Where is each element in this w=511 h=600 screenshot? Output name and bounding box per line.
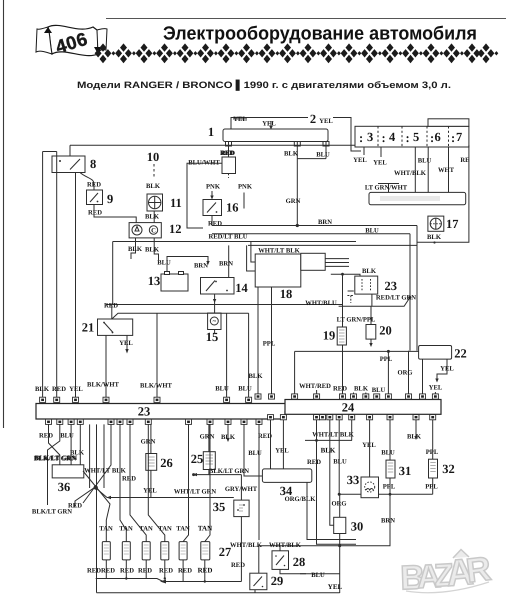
connector squares above bus 23 — [40, 397, 252, 402]
rail PPL H9 — [295, 350, 419, 397]
svg-text:2: 2 — [310, 112, 316, 126]
resistor 31 — [386, 460, 411, 478]
wire BLK stub below bus23 — [221, 424, 236, 442]
svg-text:BRN: BRN — [219, 261, 233, 268]
TAN labels — [99, 525, 212, 533]
svg-text:PNK: PNK — [238, 184, 253, 191]
wire BLK from box 1 — [284, 142, 299, 159]
ballast resistor 3 — [142, 542, 150, 560]
svg-text:23: 23 — [138, 405, 151, 419]
module 34 — [262, 469, 311, 498]
wire PPL to bus24 — [380, 351, 393, 397]
connector squares below bus 24 — [268, 415, 436, 420]
svg-text:ORG: ORG — [331, 501, 346, 508]
ignition coil 23 — [355, 276, 397, 294]
svg-text:YEL: YEL — [69, 386, 83, 393]
svg-text:PPL: PPL — [425, 484, 438, 491]
wire RED feed 21 — [111, 305, 113, 320]
wire 19 to bus24 — [342, 345, 344, 397]
rail H5 — [113, 241, 356, 243]
svg-text:BLU: BLU — [333, 459, 347, 466]
relay 22 — [419, 346, 467, 361]
svg-text:RED: RED — [39, 433, 53, 440]
svg-text:31: 31 — [399, 464, 412, 478]
svg-text:TAN: TAN — [198, 525, 212, 533]
svg-text:BLU: BLU — [248, 450, 262, 457]
svg-text:TAN: TAN — [99, 526, 113, 533]
wire BLK from 18 — [249, 287, 264, 397]
label PPL under 32 — [425, 478, 438, 494]
wire GRY/WHT vertical — [240, 475, 242, 501]
wire GRN to lamp 25 — [200, 424, 215, 451]
wire ORG to lamp 30 — [331, 494, 346, 517]
module 36 — [52, 465, 84, 494]
svg-text:BLK: BLK — [145, 246, 160, 253]
wire RED under 16 — [208, 216, 222, 228]
rail PPL bottom — [338, 493, 433, 496]
svg-text:11: 11 — [170, 196, 182, 210]
bus bar 24 — [285, 400, 441, 415]
svg-text:WHT/LT BLK: WHT/LT BLK — [312, 432, 354, 439]
svg-text:BLU: BLU — [372, 387, 386, 394]
wire RED switch9 to motor 12 — [88, 205, 136, 223]
wire 22 left leg to bus24 — [422, 359, 424, 397]
svg-text:9: 9 — [107, 192, 113, 206]
svg-text:BLU: BLU — [157, 260, 171, 267]
wire BLU from strip pin5 — [415, 147, 431, 192]
svg-text:BLK: BLK — [284, 150, 299, 157]
svg-text:20: 20 — [379, 324, 392, 338]
svg-text:4: 4 — [389, 130, 396, 144]
svg-text:RED: RED — [138, 568, 152, 575]
svg-text::: : — [359, 131, 363, 145]
wire BRN feed 14 — [219, 245, 233, 277]
svg-text:YEL: YEL — [319, 118, 333, 125]
wire BLU to resistor 31 — [381, 420, 395, 460]
label BLK/LT GRN bold — [34, 454, 78, 462]
main top rail — [70, 144, 469, 146]
svg-text:BLK: BLK — [146, 183, 161, 190]
connector strip 3-7 — [355, 119, 469, 147]
header rule line — [106, 18, 506, 20]
svg-text:28: 28 — [293, 555, 306, 569]
svg-text:BLK/WHT: BLK/WHT — [140, 383, 172, 390]
wire stub left pair — [43, 151, 57, 153]
wire RED relay8 to switch 9 — [80, 173, 101, 191]
svg-text:RED: RED — [120, 568, 134, 575]
svg-text:LT GRN/PPL: LT GRN/PPL — [337, 316, 376, 323]
svg-text:26: 26 — [160, 456, 173, 470]
wire PNK bracket to switch 16 — [187, 163, 222, 228]
sensor 15 — [206, 313, 221, 344]
wire BLU right vertical V1 — [409, 234, 411, 351]
wire PPL from 18 — [263, 287, 276, 397]
label YEL node2 — [233, 112, 333, 128]
switch 29 — [250, 573, 283, 590]
svg-text:WHT/BLK: WHT/BLK — [394, 170, 427, 177]
wire YEL from 26 — [143, 470, 157, 497]
wire BLU BLU pair to bus23 — [215, 313, 252, 397]
svg-text:RED: RED — [122, 476, 136, 483]
svg-text:RED: RED — [68, 503, 82, 510]
svg-text:21: 21 — [82, 321, 95, 335]
page ribbon 406 — [36, 25, 107, 57]
lamp 25 — [191, 452, 216, 470]
wire 14 to 15 — [213, 294, 216, 313]
lamp 30 — [334, 517, 364, 533]
svg-text:36: 36 — [58, 480, 71, 494]
svg-text:14: 14 — [235, 281, 248, 295]
wire BRN bracket from 13 — [167, 257, 210, 272]
svg-text:BLK/LT GRN: BLK/LT GRN — [35, 454, 78, 462]
svg-text:29: 29 — [271, 574, 284, 588]
wire RED WHT/LT BLK down — [307, 440, 356, 544]
svg-text:BLK: BLK — [145, 214, 160, 221]
wire stubs to module 18 — [247, 242, 256, 272]
svg-text:PPL: PPL — [263, 341, 276, 348]
svg-text:RED/LT GRN: RED/LT GRN — [376, 295, 416, 302]
wire GRN to lamp 26 — [141, 424, 156, 453]
wire feed module 34 left — [244, 424, 262, 476]
svg-text:BRN: BRN — [318, 219, 332, 226]
wire WHT/LT BLK bracket — [305, 420, 352, 442]
svg-text:PPL: PPL — [380, 356, 393, 363]
switch 9 — [87, 190, 114, 206]
svg-text::: : — [430, 131, 434, 145]
svg-text:30: 30 — [351, 520, 364, 534]
svg-text:WHT/BLK: WHT/BLK — [269, 542, 302, 549]
svg-text:10: 10 — [147, 150, 160, 164]
labels above bus 24 — [299, 383, 385, 394]
rail YEL H10 — [107, 497, 234, 499]
svg-text:BLK: BLK — [427, 234, 442, 241]
wire to box36 right leg — [79, 424, 81, 464]
wire YEL feed to box 1 — [231, 118, 361, 152]
wire BLK stub arrow — [407, 420, 422, 441]
svg-text:8: 8 — [90, 157, 96, 171]
svg-text:18: 18 — [280, 287, 293, 301]
svg-text:BLU: BLU — [311, 572, 325, 579]
page left edge line — [3, 0, 5, 428]
svg-text:Электрооборудование автомобиля: Электрооборудование автомобиля — [163, 24, 477, 45]
wire YEL from strip pin3 — [353, 147, 367, 164]
svg-text:6: 6 — [435, 130, 441, 144]
ballast resistor 6 — [201, 542, 210, 560]
svg-text:YEL: YEL — [119, 340, 133, 347]
svg-text:BLK/LT GRN: BLK/LT GRN — [209, 468, 249, 475]
svg-text:22: 22 — [454, 347, 467, 361]
rail RED/LT BLU H4 — [208, 227, 410, 240]
svg-text:3: 3 — [367, 130, 373, 144]
svg-text:TAN: TAN — [176, 526, 190, 533]
svg-text:RED: RED — [87, 182, 101, 189]
svg-text:WHT/RED: WHT/RED — [299, 383, 331, 390]
svg-text:BLU: BLU — [60, 433, 74, 440]
svg-text:5: 5 — [413, 130, 419, 144]
wire BLK/LT GRN from 25 — [192, 468, 249, 476]
svg-text:BLK: BLK — [354, 385, 369, 392]
svg-text:C: C — [151, 228, 156, 235]
svg-text:BRN: BRN — [194, 263, 208, 270]
svg-text:RED: RED — [88, 210, 102, 217]
wire BLU to rail — [333, 420, 347, 495]
svg-text::: : — [382, 131, 386, 145]
svg-text:RED: RED — [52, 386, 66, 393]
wire RED below bus23 — [39, 424, 60, 464]
svg-text:TAN: TAN — [139, 526, 153, 533]
labels above bus 23 left — [35, 386, 83, 393]
svg-text:GRN: GRN — [200, 433, 215, 440]
wire BLK coil feed — [331, 268, 377, 276]
wire BLU pin6 to gauge bar — [427, 147, 429, 192]
svg-text:RED: RED — [208, 221, 222, 228]
ground cap symbol — [347, 291, 354, 303]
svg-text:YEL: YEL — [353, 157, 367, 164]
svg-text:12: 12 — [169, 222, 182, 236]
module 18 — [255, 253, 349, 301]
wire YEL from relay 8 — [75, 173, 77, 398]
svg-text:RED: RED — [104, 303, 118, 310]
WATERMARK — [400, 550, 493, 598]
svg-text:BRN: BRN — [381, 518, 395, 525]
wire PPL to resistor 32 — [426, 420, 439, 459]
wire feed box 8 — [69, 145, 71, 156]
wire BLK/WHT second — [140, 313, 172, 397]
wire YEL from strip pin4 — [373, 147, 387, 167]
wire ORG to bus24 — [397, 351, 412, 397]
svg-text:16: 16 — [226, 201, 239, 215]
svg-text:BLU: BLU — [365, 227, 379, 234]
connector squares above bus 24 — [255, 394, 438, 399]
flasher 33 — [347, 473, 379, 498]
svg-text:GRN: GRN — [286, 198, 301, 205]
wire BRN right vertical V2 — [416, 226, 418, 351]
svg-text:19: 19 — [323, 329, 336, 343]
wire BLK 11 to 12 — [145, 211, 160, 223]
svg-text:7: 7 — [456, 130, 462, 144]
wire RED from box 1 — [220, 142, 234, 158]
svg-text:RED: RED — [87, 568, 101, 575]
resistor 19 — [323, 327, 347, 345]
ballast resistor 2 — [122, 542, 130, 560]
box 1 fuse panel — [208, 125, 329, 146]
wire feeds to ballast resistors — [120, 424, 210, 541]
capacitor 13 — [148, 260, 188, 291]
svg-text:RED: RED — [221, 150, 235, 157]
svg-text:RED: RED — [159, 568, 173, 575]
svg-text:RED: RED — [231, 562, 245, 569]
resistor 32 — [429, 459, 455, 478]
svg-text:PPL: PPL — [383, 484, 396, 491]
svg-text:BLK/WHT: BLK/WHT — [87, 382, 119, 389]
svg-text:BLU: BLU — [238, 386, 252, 393]
wire BLU below bus23 — [48, 424, 75, 505]
svg-text:RED/LT BLU: RED/LT BLU — [208, 234, 247, 241]
switch 21 — [82, 319, 133, 335]
relay 8 — [52, 156, 96, 173]
lamp unit BLU/WHT — [188, 150, 235, 178]
svg-text:WHT/BLK: WHT/BLK — [230, 542, 263, 549]
wire BLK/WHT from 21 — [87, 335, 119, 397]
wire WHT from strip pin7 — [438, 147, 455, 192]
right frame wire — [417, 145, 469, 242]
wire BLU long below bus23 — [248, 424, 272, 540]
wire ORG/BLK from 34 — [307, 482, 356, 539]
svg-text:BLU: BLU — [316, 152, 330, 159]
wire V from rail H5 down — [112, 242, 114, 305]
svg-text:BLU: BLU — [215, 386, 229, 393]
svg-text:YEL: YEL — [275, 447, 289, 454]
wire YEL to module 34 — [275, 420, 289, 469]
wire 35 down to collector — [240, 517, 242, 582]
ballast resistor 5 — [179, 542, 187, 560]
motor unit 12 — [129, 222, 181, 238]
svg-text:17: 17 — [446, 217, 459, 231]
RED labels under resistors — [87, 567, 212, 575]
svg-text:BLK/LT GRN: BLK/LT GRN — [32, 509, 72, 516]
wire YEL hook from 22 — [429, 359, 455, 391]
svg-text:RED: RED — [101, 568, 115, 575]
wire BLU from 28 — [280, 569, 340, 579]
svg-text:YEL: YEL — [373, 160, 387, 167]
rail H7 — [104, 303, 342, 310]
svg-text:~: ~ — [213, 318, 217, 325]
svg-text:YEL: YEL — [429, 384, 443, 391]
svg-text:BLU: BLU — [381, 450, 395, 457]
svg-text:33: 33 — [347, 473, 360, 487]
wire LT GRN/WHT bracket — [365, 184, 408, 193]
wire GRN vertical — [286, 159, 301, 227]
ballast resistor 1 — [102, 542, 110, 560]
svg-text:1: 1 — [208, 125, 214, 139]
svg-text:13: 13 — [148, 274, 161, 288]
wire RED from X to lower left — [68, 487, 96, 510]
lamp 26 — [146, 454, 173, 471]
svg-text:BLK: BLK — [249, 373, 264, 380]
svg-text:YEL: YEL — [262, 121, 276, 128]
switch 16 — [203, 200, 239, 216]
wire RED left vertical — [56, 152, 58, 398]
wire BRN down — [259, 494, 395, 573]
svg-text:RED: RED — [333, 386, 347, 393]
gauge 17 — [428, 216, 459, 231]
wire BLK to box36 — [70, 424, 85, 464]
svg-text:BLK: BLK — [407, 434, 422, 441]
svg-text:25: 25 — [191, 452, 204, 466]
wire lamp30 bottom — [338, 534, 341, 594]
svg-text:32: 32 — [442, 462, 455, 476]
wire BLK under 17 — [427, 234, 442, 244]
svg-text:PNK: PNK — [206, 184, 221, 191]
svg-text:RED: RED — [307, 459, 321, 466]
switch 28 — [272, 546, 305, 570]
ballast resistor 4 — [161, 542, 169, 560]
wire PNK floating — [238, 184, 253, 209]
wire BLK to lamp30 left — [321, 420, 336, 526]
svg-text:BLK: BLK — [128, 246, 143, 253]
label PPL under 31 — [383, 478, 396, 496]
svg-text:ORG: ORG — [397, 370, 412, 377]
svg-text:YEL: YEL — [143, 488, 157, 495]
collector wire RED — [96, 577, 242, 583]
wire RED long to bus24 — [333, 274, 347, 392]
rail H8 — [112, 313, 249, 319]
svg-text:TAN: TAN — [158, 526, 172, 533]
gauge bar module — [369, 192, 466, 204]
wire from 29 bottom — [97, 592, 340, 594]
X junction wires — [83, 424, 111, 592]
connector squares below bus 23 — [46, 419, 263, 424]
svg-text:BLU: BLU — [418, 158, 432, 165]
svg-text::: : — [406, 131, 410, 145]
bus bar 23 — [36, 404, 293, 420]
svg-text:TAN: TAN — [119, 526, 133, 533]
svg-text:23: 23 — [385, 279, 398, 293]
svg-text:YEL: YEL — [328, 583, 343, 591]
ornament row — [95, 43, 499, 63]
svg-text:15: 15 — [206, 330, 219, 344]
wire BLU from box 1 — [297, 142, 330, 159]
svg-text:WHT/BLU: WHT/BLU — [305, 300, 337, 307]
wire BLK left vertical — [42, 152, 44, 398]
svg-text:Модели RANGER / BRONCO ▌1990 г: Модели RANGER / BRONCO ▌1990 г. с двигат… — [77, 79, 451, 91]
wire YEL to flasher 33 — [362, 420, 376, 477]
wire RED to module 34 — [270, 420, 272, 469]
node 10 dashed — [146, 150, 161, 190]
wire YEL stub to bus24 — [434, 392, 436, 397]
svg-text::: : — [451, 131, 455, 145]
wire YEL under 21 — [119, 335, 133, 353]
svg-text:35: 35 — [213, 500, 226, 514]
label WHT/BLK pair — [269, 542, 302, 549]
svg-text:24: 24 — [342, 401, 355, 415]
wire BLK BLU stubs — [354, 393, 377, 398]
svg-text:WHT: WHT — [438, 167, 455, 174]
rail BRN H3 — [212, 219, 417, 226]
resistor output wires — [106, 560, 205, 582]
wire RED/LT GRN — [339, 294, 417, 306]
svg-text:RED: RED — [178, 568, 192, 575]
svg-text:BLK: BLK — [35, 386, 50, 393]
relay 14 — [201, 278, 249, 296]
rail H6 WHT/LT BLK — [248, 245, 417, 254]
svg-text:ORG/BLK: ORG/BLK — [285, 496, 317, 503]
clock 11 — [147, 194, 182, 211]
diode 20 — [366, 306, 392, 347]
svg-text:LT GRN/WHT: LT GRN/WHT — [365, 184, 408, 191]
svg-text:BLK: BLK — [362, 268, 377, 275]
switch 35 — [213, 500, 249, 517]
wire WHT/RED stub — [316, 390, 318, 397]
wire BLK/LT GRN lower — [32, 509, 72, 516]
svg-text:BLK: BLK — [321, 447, 336, 455]
wire BLK ground stubs under 12 — [128, 238, 160, 260]
